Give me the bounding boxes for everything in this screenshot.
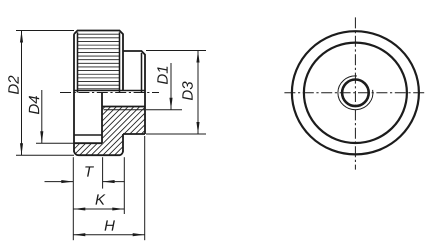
- label D1: [157, 67, 167, 84]
- thread bore line (minor): [102, 106, 145, 108]
- extension line below left face (T,K,H): [72, 157, 74, 240]
- dimension D1 line: [170, 63, 172, 110]
- extension line for D1 (thread line extended): [146, 109, 182, 111]
- thread major line (thin): [104, 109, 146, 111]
- dimension D4 line: [41, 90, 43, 143]
- head chamfer edge left: [77, 32, 79, 92]
- dimension D3 line: [197, 51, 199, 135]
- section hatching 45 deg: [40, 100, 297, 160]
- K arrow left: [73, 207, 85, 210]
- label H: [105, 220, 115, 230]
- label D3: [182, 82, 193, 101]
- head bottom edge with rounded corners: [74, 151, 123, 156]
- D3 arrow down: [196, 122, 199, 134]
- outer circle (head D2): [292, 31, 419, 154]
- hub silhouette inside recess: [74, 134, 102, 136]
- collar chamfer edge: [141, 53, 143, 93]
- thread bore circle (minor): [342, 80, 369, 107]
- extension line below recess floor (T): [102, 157, 104, 188]
- extension line, head top, for D2: [16, 30, 74, 32]
- head left face: [73, 34, 75, 152]
- section boundary edge just above axis: [74, 90, 145, 92]
- nut head outline (knurled, side view, half section): [74, 31, 123, 91]
- label D2: [8, 76, 18, 94]
- extension line for D4: [36, 142, 74, 144]
- D2 arrow down: [20, 143, 23, 155]
- recess circle (D4): [304, 43, 407, 143]
- T arrow right-pointing: [61, 180, 73, 183]
- label K: [95, 194, 105, 204]
- centerline (axis) of side view: [60, 92, 159, 94]
- extension line for D3 top: [146, 50, 206, 52]
- recess bottom edge: [74, 142, 102, 144]
- D1 arrow down: [169, 98, 172, 110]
- K arrow right: [112, 207, 124, 210]
- recess floor (vertical): [101, 93, 103, 144]
- label D4: [29, 96, 39, 114]
- thread major circle (thin, 3/4 arc, gap top-right): [338, 76, 373, 110]
- dimension T (arrows outside): [45, 181, 74, 183]
- extension line below head right (K): [123, 157, 125, 214]
- T arrow left-pointing: [103, 180, 115, 183]
- knurl pattern on nut head (side view): [78, 34, 120, 89]
- H arrow right: [133, 233, 145, 236]
- dimension H: [73, 234, 144, 236]
- D2 arrow up: [20, 31, 23, 43]
- extension line for D3 bottom: [146, 133, 206, 135]
- head right face (below collar, section): [122, 134, 124, 152]
- D3 arrow up: [196, 51, 199, 63]
- D4 arrow down: [40, 131, 43, 143]
- H arrow left: [73, 233, 85, 236]
- extension line, head bottom, for D2: [16, 154, 74, 156]
- dimension K: [73, 208, 124, 210]
- label T: [85, 166, 94, 176]
- extension line below collar face (H): [144, 136, 146, 240]
- front view vertical centerline: [354, 17, 356, 169]
- dimension D2 line: [21, 31, 23, 156]
- head chamfer edge right: [119, 32, 121, 92]
- collar outline (top edge + chamfer): [123, 51, 145, 134]
- collar bottom edge (section): [123, 133, 145, 135]
- front view horizontal centerline: [284, 92, 424, 94]
